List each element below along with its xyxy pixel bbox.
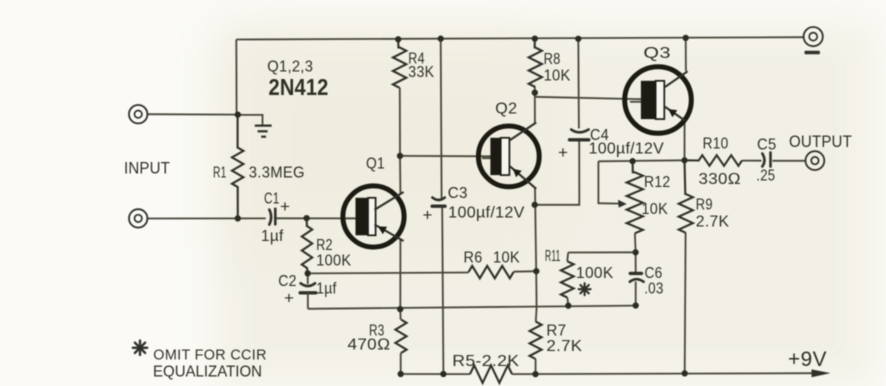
svg-text:Q3: Q3 <box>643 45 671 62</box>
wire bottom rail segment R3 to R5 <box>401 373 470 375</box>
wire input bottom terminal to R1 bottom node <box>147 217 266 219</box>
svg-text:R9: R9 <box>696 197 713 214</box>
wire R7 bottom to rail <box>535 359 537 374</box>
resistor R11 100K <box>561 261 574 297</box>
wire R11 top lead <box>567 253 568 262</box>
wire Q3 collector column from rail <box>685 38 687 71</box>
wire C5 to output terminal <box>773 160 806 162</box>
svg-text:R5-2.2K: R5-2.2K <box>452 353 519 370</box>
ground symbol <box>238 115 263 125</box>
svg-text:R12: R12 <box>644 174 671 191</box>
capacitor C1 1uf <box>269 210 271 225</box>
svg-text:.03: .03 <box>644 281 664 298</box>
capacitor C4 100uf/12V <box>571 130 588 133</box>
svg-text:1µf: 1µf <box>261 228 284 245</box>
footnote asterisk <box>133 341 147 355</box>
wire left drop from rail to ground node <box>235 40 237 115</box>
wire R11 bottom lead <box>566 298 569 306</box>
svg-text:+: + <box>558 143 568 162</box>
resistor R7 2.7K <box>530 322 542 359</box>
wire R12 bottom to R11/C6 node <box>634 233 637 252</box>
svg-text:+: + <box>280 197 290 216</box>
negative supply terminal <box>804 27 823 46</box>
svg-text:INPUT: INPUT <box>124 159 170 178</box>
wire feedback node to R6 <box>308 272 469 275</box>
wire R8 node to Q3 base <box>535 97 641 99</box>
resistor R10 330 ohm <box>685 155 743 166</box>
wire C3 column plates to bottom rail <box>442 208 443 375</box>
input bottom terminal <box>129 209 147 227</box>
transistor Q3 2N412 <box>625 67 692 134</box>
wire C6 column top <box>635 252 637 273</box>
wire bottom +9V rail from R5 to arrow <box>512 372 813 375</box>
svg-text:470Ω: 470Ω <box>348 337 391 354</box>
svg-text:C1: C1 <box>264 191 280 208</box>
svg-text:C5: C5 <box>757 137 777 154</box>
svg-text:R1: R1 <box>213 165 227 182</box>
capacitor C5 .25 <box>762 154 764 167</box>
svg-text:R10: R10 <box>703 136 729 153</box>
wire R10 right to C5 <box>742 160 762 162</box>
svg-text:100K: 100K <box>316 253 351 270</box>
wire C4 column rail to plates <box>577 39 580 129</box>
wire Q1 emitter column down to R3 <box>399 240 401 320</box>
wire R4 bottom to collector node <box>399 88 401 156</box>
transistor Q1 2N412 <box>343 186 404 247</box>
wire R12 wiper loop <box>598 161 618 203</box>
wire input top terminal to ground node <box>147 113 238 115</box>
svg-text:2.7K: 2.7K <box>696 214 730 231</box>
wire R6 to Q2 emitter column <box>514 270 537 273</box>
svg-text:2N412: 2N412 <box>269 74 329 100</box>
R12 wiper arrow <box>618 200 627 208</box>
svg-text:3.3MEG: 3.3MEG <box>249 165 305 182</box>
resistor R1 3.3MEG <box>232 115 243 219</box>
svg-text:.25: .25 <box>756 168 775 185</box>
svg-text:R11: R11 <box>545 248 561 265</box>
wire top negative supply rail <box>236 37 803 39</box>
wire R9 bottom to rail <box>684 233 687 374</box>
resistor R5 2.2K in rail <box>470 365 512 383</box>
+9V supply arrow <box>812 369 831 377</box>
input top terminal <box>129 105 147 123</box>
wire Q2 emitter column down through R6 node to R7 <box>535 189 537 322</box>
svg-text:+: + <box>284 289 294 308</box>
wire C1 to Q1 base <box>276 217 356 219</box>
wire R12 top rail from wiper loop to R9 node <box>598 160 684 161</box>
resistor R3 470 ohm <box>395 320 406 354</box>
svg-text:10K: 10K <box>493 250 520 267</box>
svg-text:Q2: Q2 <box>495 101 517 118</box>
svg-text:100µf/12V: 100µf/12V <box>589 141 665 158</box>
asterisk for R11 <box>579 283 591 295</box>
wire Q3 emitter column down to R10/R9 node <box>684 120 686 160</box>
svg-text:R6: R6 <box>464 250 483 267</box>
svg-text:Q1,2,3: Q1,2,3 <box>267 59 313 76</box>
capacitor C6 .03 <box>630 272 641 275</box>
svg-text:330Ω: 330Ω <box>699 171 742 188</box>
svg-text:C2: C2 <box>278 273 297 290</box>
svg-text:1µf: 1µf <box>316 281 337 298</box>
wire C4 bottom L-bend to Q2 emitter column <box>535 141 580 205</box>
svg-text:+: + <box>423 206 433 225</box>
svg-text:C3: C3 <box>448 185 468 202</box>
svg-text:R2: R2 <box>316 237 333 254</box>
minus polarity mark <box>805 51 820 55</box>
capacitor C3 100uf/12V <box>432 198 444 201</box>
transistor Q2 2N412 <box>478 126 539 187</box>
resistor R2 100K <box>302 218 312 273</box>
svg-text:OUTPUT: OUTPUT <box>789 132 852 151</box>
svg-text:Q1: Q1 <box>366 156 385 173</box>
resistor R4 33K <box>393 39 406 88</box>
resistor R6 10K <box>469 266 514 278</box>
wire R3 bottom to bottom rail <box>400 353 402 374</box>
wire R8 bottom to Q2 collector joint <box>534 87 536 123</box>
svg-text:100µf/12V: 100µf/12V <box>448 205 525 222</box>
wire C6 column bottom <box>635 282 637 306</box>
svg-text:OMIT FOR CCIR: OMIT FOR CCIR <box>153 347 266 364</box>
svg-text:R8: R8 <box>544 51 561 68</box>
svg-text:33K: 33K <box>408 64 434 81</box>
capacitor C2 1uf <box>307 273 309 284</box>
svg-text:2.7K: 2.7K <box>546 338 582 355</box>
potentiometer R12 10K <box>627 161 643 233</box>
svg-text:+9V: +9V <box>788 347 827 371</box>
svg-text:100K: 100K <box>576 265 614 282</box>
svg-text:C6: C6 <box>645 265 663 282</box>
wire C3 column rail to plates <box>440 39 443 199</box>
svg-text:10K: 10K <box>642 201 669 218</box>
wire C2 bottom across to C6 bottom <box>308 306 636 309</box>
resistor R8 10K <box>529 39 542 87</box>
wire R11/C6 top link <box>568 251 635 253</box>
output terminal <box>806 151 825 170</box>
resistor R9 2.7K <box>679 160 693 233</box>
svg-text:R7: R7 <box>546 323 566 340</box>
svg-text:EQUALIZATION: EQUALIZATION <box>153 364 262 381</box>
wire Q1 collector node to Q2 base <box>400 155 491 157</box>
svg-text:10K: 10K <box>544 68 571 85</box>
wire collector node down to Q1 collector diagonal <box>399 156 401 194</box>
